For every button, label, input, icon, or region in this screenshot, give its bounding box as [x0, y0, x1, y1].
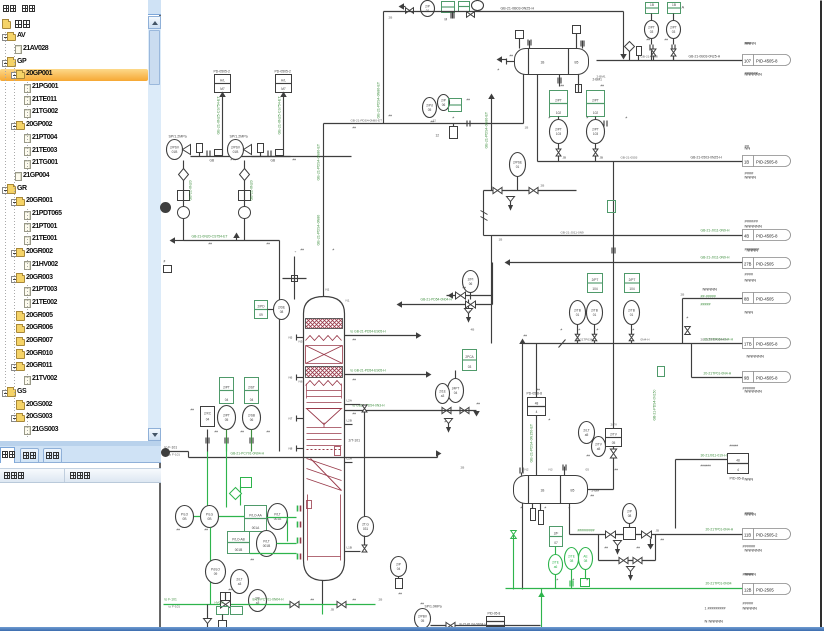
svg-text:N1: N1 [326, 288, 330, 292]
svg-text:#: # [573, 578, 575, 582]
svg-text:##: ## [353, 126, 357, 130]
svg-text:NNNNN: NNNNN [703, 287, 718, 292]
svg-text:N5: N5 [299, 340, 303, 344]
svg-text:08: 08 [280, 310, 284, 314]
svg-text:##: ## [177, 528, 181, 532]
svg-text:2/DE: 2/DE [278, 306, 285, 310]
svg-text:08: 08 [628, 514, 632, 518]
svg-text:N NNNNN: N NNNNN [705, 619, 724, 624]
svg-text:#: # [545, 506, 547, 510]
svg-text:01B: 01B [172, 150, 178, 154]
svg-text:05: 05 [225, 418, 229, 422]
svg-text:1B: 1B [650, 3, 654, 7]
svg-text:12: 12 [436, 134, 440, 138]
svg-text:PID-05-8: PID-05-8 [730, 477, 744, 481]
svg-text:##: ## [215, 430, 219, 434]
svg-text:#####: ##### [743, 573, 754, 577]
svg-text:##: ## [293, 158, 297, 162]
svg-text:a3: a3 [238, 582, 242, 586]
svg-text:B-21-PL04-0N04-H: B-21-PL04-0N04-H [460, 623, 488, 627]
svg-text:GB-21-PDS4-0N80-ET: GB-21-PDS4-0N80-ET [377, 81, 381, 118]
svg-text:M: M [445, 18, 448, 22]
svg-text:##: ## [463, 286, 467, 290]
svg-text:2/PT: 2/PT [629, 278, 636, 282]
svg-text:4B: 4B [471, 328, 475, 332]
svg-text:##: ## [647, 38, 651, 42]
svg-text:#: # [445, 420, 447, 424]
svg-text:2/XC: 2/XC [204, 412, 212, 416]
svg-text:JB: JB [656, 529, 660, 533]
svg-text:20-21TP01-0N4-H: 20-21TP01-0N4-H [706, 528, 734, 532]
svg-text:#: # [633, 328, 635, 332]
svg-text:2/LT: 2/LT [236, 578, 242, 582]
svg-text:Pd/LO: Pd/LO [211, 568, 221, 572]
svg-text:JB: JB [600, 156, 604, 160]
svg-text:##: ## [745, 144, 750, 149]
svg-text:2/PI: 2/PI [468, 278, 474, 282]
svg-text:2/T-101: 2/T-101 [349, 439, 361, 443]
svg-text:2/PT: 2/PT [592, 278, 599, 282]
svg-text:NNNN: NNNN [745, 278, 757, 283]
svg-text:2/TV: 2/TV [611, 423, 618, 427]
svg-text:##: ## [209, 242, 213, 246]
svg-text:####: #### [745, 511, 755, 516]
svg-text:a5: a5 [585, 433, 589, 437]
svg-text:GB-21-PDS4-0N80: GB-21-PDS4-0N80 [317, 215, 321, 246]
svg-text:NNNN: NNNN [745, 512, 757, 517]
svg-text:001A: 001A [274, 517, 282, 521]
svg-text:2/PSV: 2/PSV [231, 146, 241, 150]
svg-text:GB-21-0503-0N25-H: GB-21-0503-0N25-H [691, 156, 723, 160]
svg-text:####: #### [745, 273, 754, 277]
svg-text:GB-21-0N25-CS754-ET: GB-21-0N25-CS754-ET [278, 96, 282, 135]
svg-text:JB: JB [563, 156, 567, 160]
svg-text:04: 04 [454, 391, 458, 395]
svg-text:NNNNNN: NNNNNN [745, 389, 762, 394]
svg-text:N1: N1 [346, 299, 350, 303]
svg-text:27B: 27B [744, 262, 752, 267]
svg-text:08: 08 [584, 559, 588, 563]
svg-text:GB: GB [210, 159, 215, 163]
svg-text:##: ## [389, 114, 393, 118]
svg-text:##: ## [467, 98, 471, 102]
svg-text:11B: 11B [744, 533, 751, 538]
svg-text:NNNNNN: NNNNNN [745, 548, 762, 553]
svg-text:2/PD: 2/PD [257, 305, 265, 309]
svg-text:GB-21-J011-0N9: GB-21-J011-0N9 [561, 231, 584, 235]
svg-text:05: 05 [612, 441, 616, 445]
svg-text:H/L: H/L [220, 79, 225, 83]
svg-text:to F-101: to F-101 [165, 598, 177, 602]
svg-text:2/Pd: 2/Pd [426, 104, 433, 108]
svg-text:2PCA: 2PCA [465, 355, 474, 359]
svg-text:GB-21-0N20-CS754-ET: GB-21-0N20-CS754-ET [192, 235, 228, 239]
svg-text:2/D: 2/D [255, 597, 261, 601]
svg-text:#: # [549, 116, 551, 120]
svg-text:06: 06 [442, 103, 446, 107]
svg-text:N7: N7 [289, 417, 293, 421]
svg-text:##: ## [591, 494, 595, 498]
svg-text:HV010: HV010 [215, 601, 225, 605]
svg-text:##: ## [399, 592, 403, 596]
svg-text:P/LT: P/LT [263, 540, 270, 544]
svg-text:NNNNNN: NNNNNN [745, 224, 762, 229]
svg-text:GB-21-PDS4-0N150: GB-21-PDS4-0N150 [653, 389, 657, 420]
svg-text:20-21TP01-0N04: 20-21TP01-0N04 [706, 582, 732, 586]
svg-text:8B: 8B [744, 297, 749, 302]
svg-text:PID-4505-8: PID-4505-8 [756, 342, 778, 347]
svg-text:2/P: 2/P [425, 5, 430, 9]
svg-text:##: ## [665, 38, 669, 42]
svg-text:##: ## [537, 388, 541, 392]
svg-text:9B: 9B [744, 376, 749, 381]
svg-text:103: 103 [556, 132, 562, 136]
svg-text:#: # [469, 310, 471, 314]
svg-text:09: 09 [259, 313, 263, 317]
svg-text:L1B: L1B [347, 546, 352, 550]
svg-text:##: ## [637, 546, 641, 550]
svg-text:#: # [498, 68, 500, 72]
svg-text:PID-2505-2: PID-2505-2 [756, 533, 778, 538]
svg-text:05: 05 [421, 619, 425, 623]
svg-text:001B: 001B [263, 544, 270, 548]
svg-text:##: ## [353, 338, 357, 342]
svg-text:P/LG: P/LG [206, 513, 214, 517]
svg-text:09: 09 [214, 572, 218, 576]
svg-text:GB-21-PDS4-0N80-ET: GB-21-PDS4-0N80-ET [317, 143, 321, 180]
svg-text:4: 4 [737, 468, 739, 472]
svg-text:1TB: 1TB [744, 342, 752, 347]
svg-text:01: 01 [576, 313, 580, 317]
svg-text:#: # [453, 116, 455, 120]
svg-text:2-BM1: 2-BM1 [597, 75, 606, 79]
svg-text:2B: 2B [681, 293, 685, 297]
svg-text:102: 102 [556, 111, 562, 115]
svg-text:07: 07 [554, 541, 558, 545]
svg-text:04: 04 [397, 567, 401, 571]
svg-text:2B: 2B [541, 184, 545, 188]
svg-text:PID-4505: PID-4505 [756, 297, 774, 302]
svg-text:to F-101: to F-101 [169, 453, 181, 457]
svg-text:##: ## [251, 558, 255, 562]
svg-text:PID-4505-8: PID-4505-8 [756, 234, 778, 239]
svg-text:2/PT: 2/PT [555, 99, 562, 103]
svg-text:2B: 2B [389, 16, 393, 20]
svg-text:06: 06 [469, 282, 473, 286]
svg-text:1B: 1B [499, 238, 503, 242]
svg-text:GB-21-0503: GB-21-0503 [621, 156, 638, 160]
svg-text:2/PT: 2/PT [555, 128, 562, 132]
svg-text:NNNNNN: NNNNNN [747, 354, 764, 359]
svg-text:031: 031 [363, 527, 369, 531]
svg-text:#: # [549, 418, 551, 422]
svg-text:NNNNN: NNNNN [743, 606, 758, 611]
svg-text:20-21TP01-0N4-H: 20-21TP01-0N4-H [704, 372, 732, 376]
svg-text:##: ## [661, 538, 665, 542]
svg-text:#####: ##### [701, 303, 711, 307]
svg-text:to F-101: to F-101 [169, 605, 181, 609]
svg-text:##: ## [421, 602, 425, 606]
svg-text:##: ## [605, 546, 609, 550]
svg-text:48: 48 [736, 459, 740, 463]
svg-text:##: ## [311, 598, 315, 602]
svg-text:#####: ##### [743, 602, 754, 606]
svg-text:##: ## [267, 242, 271, 246]
svg-text:2/P: 2/P [627, 510, 632, 514]
svg-text:01B: 01B [233, 150, 239, 154]
svg-text:2/PT: 2/PT [592, 128, 599, 132]
svg-text:GB-21-PDS4-0N80-ET: GB-21-PDS4-0N80-ET [351, 119, 383, 123]
svg-text:to GB-21-PD54-ES05-H: to GB-21-PD54-ES05-H [351, 330, 387, 334]
svg-text:SP/1.0MPa: SP/1.0MPa [425, 605, 442, 609]
svg-text:GB-21-J011-0N9-H: GB-21-J011-0N9-H [701, 229, 731, 233]
svg-text:#########: ######### [578, 529, 595, 533]
svg-text:P/LT: P/LT [274, 513, 281, 517]
svg-text:20-21TP034: 20-21TP034 [576, 338, 593, 342]
svg-text:GB-21-0B03-0N25-H: GB-21-0B03-0N25-H [689, 55, 721, 59]
svg-text:PD-05/8-8: PD-05/8-8 [527, 392, 543, 396]
svg-text:NNNNNN: NNNNNN [745, 72, 762, 77]
svg-text:SP/1.2MPa: SP/1.2MPa [230, 135, 248, 139]
svg-text:PID-4505-8: PID-4505-8 [756, 376, 778, 381]
svg-text:NNNN: NNNN [745, 572, 757, 577]
svg-text:12: 12 [433, 119, 437, 123]
svg-text:2-BM: 2-BM [592, 489, 600, 493]
svg-text:03: 03 [650, 30, 654, 34]
svg-text:2/P: 2/P [396, 563, 401, 567]
svg-text:03: 03 [468, 365, 472, 369]
svg-text:##: ## [267, 430, 271, 434]
svg-text:a3: a3 [441, 394, 445, 398]
svg-text:to GB-21-PD54-ES05-H: to GB-21-PD54-ES05-H [351, 369, 387, 373]
svg-text:GB: GB [271, 159, 276, 163]
svg-text:01: 01 [426, 9, 430, 13]
svg-text:PD-0505-2: PD-0505-2 [275, 70, 292, 74]
svg-text:##: ## [431, 120, 435, 124]
svg-text:2/PT: 2/PT [223, 414, 230, 418]
svg-text:# ##: # ## [231, 158, 237, 162]
svg-text:JB: JB [331, 608, 335, 612]
svg-text:#: # [579, 328, 581, 332]
svg-text:06: 06 [250, 418, 254, 422]
svg-text:#: # [626, 116, 628, 120]
svg-text:a3: a3 [256, 601, 260, 605]
svg-text:NNNN: NNNN [747, 248, 759, 253]
svg-text:2/1E: 2/1E [439, 390, 446, 394]
svg-text:2/TE: 2/TE [568, 555, 575, 559]
svg-text:##: ## [510, 54, 514, 58]
svg-text:4: 4 [536, 410, 538, 414]
svg-text:2/SB: 2/SB [248, 414, 255, 418]
svg-text:GB-21-PD54-0N04-H: GB-21-PD54-0N04-H [421, 298, 453, 302]
svg-text:104: 104 [592, 287, 598, 291]
svg-text:L2A: L2A [347, 399, 352, 403]
svg-text:001A: 001A [252, 526, 260, 530]
svg-text:NN: NN [745, 146, 751, 151]
svg-text:##: ## [353, 378, 357, 382]
svg-text:##: ## [524, 334, 528, 338]
svg-text:05: 05 [586, 468, 590, 472]
svg-text:N8: N8 [289, 447, 293, 451]
svg-text:0N4-H: 0N4-H [641, 338, 650, 342]
svg-text:2/P: 2/P [441, 99, 446, 103]
svg-text:#####: ##### [730, 444, 739, 448]
svg-text:04: 04 [250, 398, 254, 402]
svg-text:#: # [561, 328, 563, 332]
svg-text:GB-21-PDS4-0N80-ET: GB-21-PDS4-0N80-ET [485, 111, 489, 148]
svg-text:01: 01 [516, 165, 520, 169]
svg-text:######: ###### [701, 464, 712, 468]
svg-text:#: # [333, 248, 335, 252]
svg-text:GB-21-0N20: GB-21-0N20 [250, 180, 254, 200]
svg-text:GB-21-PDS4-0N150-ET: GB-21-PDS4-0N150-ET [530, 423, 534, 462]
svg-text:###: ### [745, 41, 752, 46]
svg-text:NNN: NNN [745, 310, 754, 315]
svg-text:PD-0505-2: PD-0505-2 [214, 70, 231, 74]
svg-text:a6: a6 [554, 565, 558, 569]
svg-text:2-BM1: 2-BM1 [593, 78, 603, 82]
svg-text:2/PT: 2/PT [648, 26, 655, 30]
svg-text:2/TE: 2/TE [552, 561, 559, 565]
svg-text:L1A: L1A [347, 457, 352, 461]
svg-text:1B: 1B [541, 61, 545, 65]
svg-text:PID-2505: PID-2505 [756, 588, 774, 593]
svg-text:N2: N2 [525, 468, 529, 472]
svg-text:2/ST: 2/ST [248, 386, 255, 390]
svg-text:1B: 1B [541, 489, 545, 493]
svg-text:PID-05-8: PID-05-8 [488, 612, 501, 616]
svg-text:GB-21-J011-0N9-H: GB-21-J011-0N9-H [701, 256, 731, 260]
svg-text:##: ## [241, 430, 245, 434]
svg-text:GB-21-0N20: GB-21-0N20 [189, 180, 193, 200]
svg-text:##: ## [353, 412, 357, 416]
svg-text:#: # [687, 316, 689, 320]
svg-text:2/TB: 2/TB [591, 309, 598, 313]
svg-text:AE: AE [583, 555, 587, 559]
svg-text:1B: 1B [744, 160, 749, 165]
svg-text:2/F: 2/F [554, 532, 559, 536]
svg-text:##: ## [205, 528, 209, 532]
svg-text:to GB21-PD54-0N3-H: to GB21-PD54-0N3-H [353, 404, 386, 408]
svg-text:PID-4505-8: PID-4505-8 [756, 59, 778, 64]
svg-text:##: ## [587, 454, 591, 458]
svg-text:######: ###### [743, 387, 757, 391]
svg-text:GB-21-0N25-CS754-ET: GB-21-0N25-CS754-ET [217, 96, 221, 135]
svg-text:04: 04 [206, 418, 210, 422]
svg-text:01: 01 [593, 313, 597, 317]
svg-text:2/PBV: 2/PBV [418, 615, 428, 619]
svg-text:2/TV: 2/TV [595, 443, 603, 447]
svg-text:L2B: L2B [347, 419, 352, 423]
svg-text:102: 102 [593, 111, 599, 115]
svg-text:SP/1.2MPa: SP/1.2MPa [169, 135, 187, 139]
svg-text:2/TB: 2/TB [574, 309, 581, 313]
svg-text:24PT: 24PT [452, 387, 460, 391]
svg-text:A: A [682, 5, 685, 10]
svg-text:107: 107 [744, 59, 752, 64]
svg-text:08: 08 [570, 559, 574, 563]
svg-text:M7: M7 [220, 87, 225, 91]
svg-text:##: ## [229, 588, 233, 592]
svg-text:1B: 1B [525, 126, 529, 130]
svg-text:NNNN: NNNN [745, 41, 757, 46]
svg-text:##: ## [191, 408, 195, 412]
svg-text:P/LO-AB: P/LO-AB [232, 538, 245, 542]
svg-text:103: 103 [593, 132, 599, 136]
svg-text:##-#####: ##-##### [701, 295, 716, 299]
svg-text:20-21TP034-0N4-H: 20-21TP034-0N4-H [701, 338, 728, 342]
svg-text:P/LO-AA: P/LO-AA [249, 514, 262, 518]
svg-text:##: ## [561, 84, 565, 88]
svg-text:B5: B5 [571, 489, 575, 493]
svg-text:##: ## [477, 402, 481, 406]
svg-text:#: # [597, 328, 599, 332]
svg-text:+: + [295, 250, 297, 254]
svg-text:######: ###### [745, 219, 759, 224]
svg-text:2B: 2B [379, 598, 383, 602]
svg-text:##: ## [601, 84, 605, 88]
svg-text:######: ###### [743, 545, 757, 549]
svg-text:B-21-PCY01-0N04-H: B-21-PCY01-0N04-H [253, 598, 285, 602]
svg-text:20-21TP034-0N4-H: 20-21TP034-0N4-H [704, 338, 734, 342]
svg-text:2/PSE: 2/PSE [513, 161, 522, 165]
svg-text:B5: B5 [575, 61, 579, 65]
svg-text:0B: 0B [183, 517, 187, 521]
svg-text:30-21J011-019-H: 30-21J011-019-H [701, 454, 728, 458]
svg-text:2B: 2B [461, 466, 465, 470]
svg-text:104: 104 [629, 287, 635, 291]
svg-text:4B: 4B [744, 234, 749, 239]
svg-text:#: # [587, 578, 589, 582]
svg-text:2/PSV: 2/PSV [170, 146, 180, 150]
svg-text:NNN: NNN [745, 477, 754, 482]
svg-text:#######: ####### [745, 248, 761, 252]
svg-text:H/L: H/L [281, 79, 286, 83]
svg-text:2T.G: 2T.G [362, 523, 369, 527]
svg-text:04: 04 [225, 398, 229, 402]
svg-text:GB-21-0B03: GB-21-0B03 [641, 55, 658, 59]
svg-text:P/LO: P/LO [181, 513, 189, 517]
svg-text:2/TB: 2/TB [628, 309, 635, 313]
svg-text:GB-21-PCY01-0N04-H: GB-21-PCY01-0N04-H [231, 452, 265, 456]
svg-text:48: 48 [535, 402, 539, 406]
svg-text:N6: N6 [289, 376, 293, 380]
svg-text:001B: 001B [235, 548, 242, 552]
svg-text:2/LT: 2/LT [583, 429, 589, 433]
svg-text:05: 05 [428, 108, 432, 112]
svg-text:##: ## [353, 598, 357, 602]
svg-text:N6: N6 [299, 380, 303, 384]
svg-text:#: # [569, 506, 571, 510]
svg-text:#: # [164, 260, 166, 264]
svg-text:a5: a5 [597, 447, 601, 451]
svg-text:to F-101: to F-101 [165, 446, 178, 450]
svg-text:M7: M7 [281, 87, 286, 91]
svg-text:####: #### [745, 171, 755, 176]
svg-text:2/PT: 2/PT [670, 26, 677, 30]
svg-text:#: # [521, 506, 523, 510]
svg-text:2/TV: 2/TV [610, 433, 618, 437]
svg-text:PID-2505-8: PID-2505-8 [756, 160, 778, 165]
svg-text:1B: 1B [672, 3, 676, 7]
svg-text:PID-2505: PID-2505 [756, 262, 774, 267]
svg-text:#: # [557, 578, 559, 582]
svg-text:##: ## [301, 248, 305, 252]
svg-text:1 #########: 1 ######### [705, 607, 726, 611]
svg-text:01: 01 [630, 313, 634, 317]
svg-text:03: 03 [672, 30, 676, 34]
svg-text:0B: 0B [208, 517, 212, 521]
